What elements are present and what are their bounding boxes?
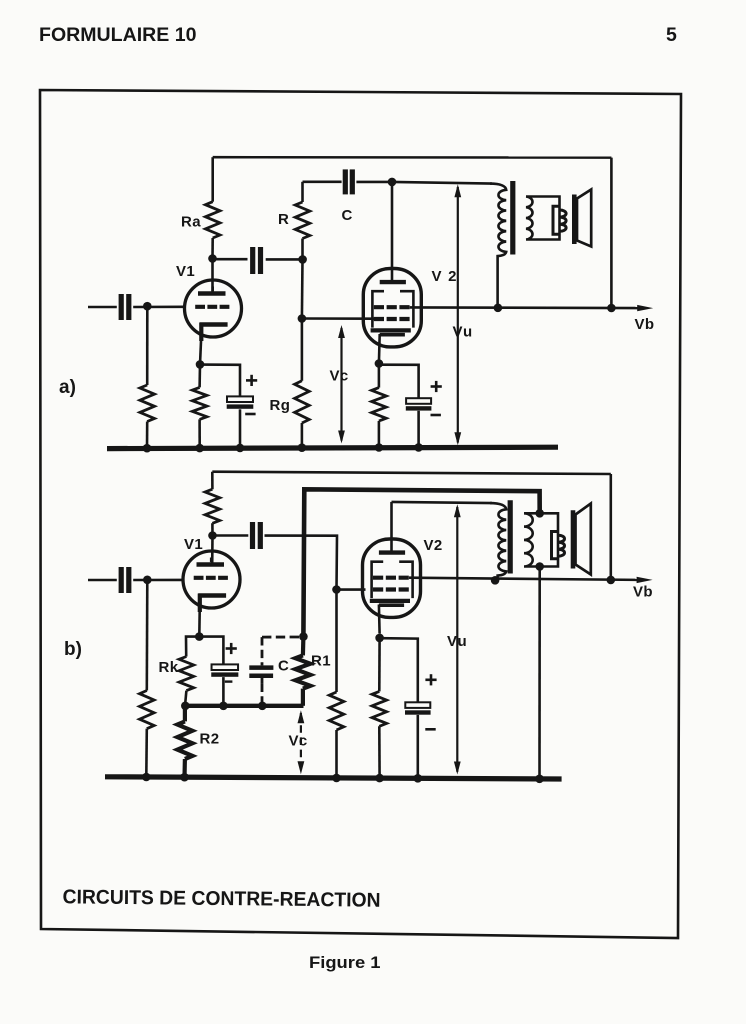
wire: V1 anode lead (a) xyxy=(211,259,214,294)
V2 control grid dashes xyxy=(373,587,409,591)
V2 screen grid dashes xyxy=(374,305,410,309)
wire: input stub (a) xyxy=(88,306,117,309)
V1 cathode xyxy=(198,593,226,598)
resistor: V1 grid leak (b) xyxy=(146,580,149,691)
speaker bar (b) xyxy=(571,510,576,568)
thick feedback wire from secondary (b) xyxy=(303,489,539,636)
svg-text:C: C xyxy=(342,207,353,224)
node: V2 cathode junction (a) xyxy=(375,359,384,368)
Vc dashed measure arrow (b) xyxy=(300,713,302,772)
outer frame xyxy=(40,90,681,938)
wire: screen to B+ rail with Vb arrow (b) xyxy=(409,578,638,580)
wire: input stub (b) xyxy=(88,579,117,582)
svg-text:CIRCUITS DE CONTRE-REACTION: CIRCUITS DE CONTRE-REACTION xyxy=(62,886,380,911)
svg-text:R2: R2 xyxy=(200,731,220,748)
V1 cathode xyxy=(200,322,228,327)
wire: supply drop to Vb node (a) xyxy=(610,158,613,308)
svg-text:Figure 1: Figure 1 xyxy=(309,954,381,972)
node: grid node on R-Rg chain (a) xyxy=(301,259,304,318)
wire: supply drop to Vb node (b) xyxy=(609,474,612,580)
svg-text:V2: V2 xyxy=(424,537,443,554)
V2 screen box xyxy=(372,291,413,327)
Vu measure arrow (b) xyxy=(456,507,458,772)
svg-text:Rk: Rk xyxy=(159,659,179,676)
svg-text:a): a) xyxy=(59,377,76,398)
svg-text:Vu: Vu xyxy=(447,633,468,650)
svg-text:Vb: Vb xyxy=(635,316,655,333)
resistor Rk xyxy=(186,637,199,657)
resistor R1 (bold) xyxy=(301,637,306,656)
V1 grid xyxy=(194,576,229,580)
wire: R top to C (a) xyxy=(303,181,342,184)
wire: V1 anode lead (b) xyxy=(211,536,214,565)
plus sign (b V2 cap) xyxy=(425,678,436,681)
resistor: V1 anode resistor (b) xyxy=(211,472,214,490)
wire: top supply rail (b) xyxy=(212,472,611,474)
wire: V1 cathode lead (b) xyxy=(198,594,202,613)
resistor R2 (bold) xyxy=(183,706,187,722)
thick cathode feedback node line (b) xyxy=(184,704,303,708)
ground bus (a) xyxy=(107,447,558,448)
wire: V2 cathode lead (b) xyxy=(378,605,381,634)
node: V2 grid node (b) xyxy=(332,585,341,594)
wire: V1 cathode lead (a) xyxy=(199,323,203,342)
svg-text:Vb: Vb xyxy=(633,584,653,601)
node: V2 anode node (a) xyxy=(388,178,397,187)
wire: screen grid to B+ rail with Vb arrow (a) xyxy=(410,306,638,309)
minus sign (a V2 cap) xyxy=(431,414,441,417)
wire: V1 anode to coupling cap (a) xyxy=(213,258,248,261)
speaker voice coil (a) xyxy=(553,206,566,234)
svg-text:5: 5 xyxy=(666,24,677,46)
node dots on node line (b) xyxy=(181,702,190,711)
capacitor: input coupling cap (a) xyxy=(119,294,124,320)
node: primary return on rail (b) xyxy=(491,576,500,585)
bus junction dots (a) xyxy=(143,444,152,453)
node: V1 anode junction (b) xyxy=(208,531,217,540)
node: R1 top node (b) xyxy=(299,632,308,641)
plus sign (a V1 cap) xyxy=(246,379,257,382)
transformer secondary + speaker coil (a) xyxy=(526,197,560,240)
transformer core (b) xyxy=(508,500,513,573)
resistor R xyxy=(301,239,304,260)
wire: to V2 bypass cap (b) xyxy=(380,638,418,702)
minus sign (a V1 cap) xyxy=(245,413,255,416)
minus sign (b V2 cap) xyxy=(425,728,435,731)
svg-text:b): b) xyxy=(64,639,82,660)
svg-text:C: C xyxy=(278,658,289,675)
node: secondary top feedback tap (b) xyxy=(535,509,544,518)
V2 control grid dashes xyxy=(374,317,410,321)
resistor: V2 cathode resistor (b) xyxy=(378,638,381,692)
capacitor: V1 cathode bypass (a) xyxy=(227,396,253,402)
wire: to V2 bypass cap (a) xyxy=(379,365,419,399)
wire: V2 cathode lead (a) xyxy=(378,334,381,364)
wire: coupling cap to R node (a) xyxy=(266,258,303,261)
wire: grid node to V2 grid (a) xyxy=(302,317,374,320)
tube V2 envelope xyxy=(363,269,421,347)
V2 cathode xyxy=(370,599,410,603)
wire: grid node to V2 grid (b) xyxy=(337,588,366,591)
V2 cathode xyxy=(371,328,411,332)
resistor: V2 grid leak (b) xyxy=(335,590,338,693)
wire: V2 top lead to primary line (b) xyxy=(390,502,393,553)
plus sign (b Rk cap) xyxy=(226,647,237,650)
capacitor: V2 cathode bypass (b) xyxy=(405,702,430,708)
node: V1 cathode junction (a) xyxy=(196,360,205,369)
wire: V2 anode to primary top (a) xyxy=(392,182,492,184)
node: secondary bottom ground tap (b) xyxy=(535,562,544,571)
V1 anode xyxy=(197,562,225,567)
V2 screen box xyxy=(372,562,413,598)
node: V1 anode junction (a) xyxy=(208,254,217,263)
wire: secondary bottom to ground (b) xyxy=(538,567,541,779)
V1 cathode node (b) xyxy=(195,632,204,641)
Vc measure arrow (a) xyxy=(340,328,342,441)
minus tick (b Rk cap) xyxy=(225,680,233,682)
capacitor: Rk bypass electrolytic (b) xyxy=(212,664,239,670)
wire: top supply rail (a) xyxy=(213,156,612,159)
node: Vb junction (a) xyxy=(607,304,616,313)
wire: C to V2 anode node (a) xyxy=(356,181,392,184)
svg-text:V1: V1 xyxy=(184,536,203,553)
bus junction dots (b) xyxy=(142,773,151,782)
svg-text:FORMULAIRE 10: FORMULAIRE 10 xyxy=(39,24,197,46)
node: primary return on rail (a) xyxy=(494,304,503,313)
speaker cone (b) xyxy=(576,504,591,575)
capacitor: input coupling cap (b) xyxy=(119,567,124,593)
speaker cone (a) xyxy=(577,190,591,247)
svg-text:R1: R1 xyxy=(311,653,331,670)
transformer secondary (b) xyxy=(524,513,558,566)
dashed capacitor C (b) xyxy=(262,636,300,639)
wire: V1 anode to coupling cap (b) xyxy=(213,534,249,537)
wire: anode line to primary top (b) xyxy=(392,502,493,503)
svg-text:Vc: Vc xyxy=(330,368,349,385)
capacitor C (a feedback) xyxy=(343,169,348,194)
resistor: V1 cathode resistor (a) xyxy=(198,364,201,387)
tube V1 envelope xyxy=(183,551,240,608)
resistor: V1 grid leak (a) xyxy=(146,306,149,385)
capacitor: interstage coupling (a) xyxy=(250,247,255,274)
tube V1 envelope xyxy=(185,280,242,337)
V2 anode xyxy=(380,280,406,284)
Vu measure arrow (a) xyxy=(457,187,459,443)
node: input junction (b) xyxy=(143,576,152,585)
svg-text:V 2: V 2 xyxy=(432,268,458,285)
wire: coupling cap to corner then V2 grid node (b) xyxy=(265,536,338,590)
capacitor: V2 cathode bypass (a) xyxy=(406,398,431,404)
plus sign (a V2 cap) xyxy=(431,385,442,388)
wire: V2 top lead (a) xyxy=(391,182,394,282)
node: Vb junction (b) xyxy=(607,576,616,585)
transformer primary winding (b) xyxy=(490,503,506,580)
ground bus (b) xyxy=(105,777,562,779)
svg-text:Rg: Rg xyxy=(270,397,291,414)
svg-text:R: R xyxy=(278,211,289,228)
speaker bar (a) xyxy=(572,195,577,245)
wire: to V1 bypass cap (a) xyxy=(200,365,240,397)
tube V2 envelope xyxy=(363,539,421,617)
svg-text:Ra: Ra xyxy=(181,214,201,231)
resistor Ra xyxy=(211,157,214,202)
resistor Rg xyxy=(301,319,304,381)
node: input junction (a) xyxy=(143,302,152,311)
transformer core (a) xyxy=(510,181,515,255)
node: V2 cathode junction (b) xyxy=(375,634,384,643)
transformer primary winding (a) xyxy=(490,184,506,312)
V1 grid xyxy=(195,305,230,309)
svg-text:Vc: Vc xyxy=(289,733,308,750)
V2 screen grid dashes xyxy=(373,576,409,580)
wire: input to V1 grid (b) xyxy=(133,579,183,582)
V1 anode xyxy=(198,291,226,296)
capacitor: interstage coupling (b) xyxy=(250,522,255,549)
V2 anode xyxy=(379,550,405,554)
speaker voice coil (b) xyxy=(552,532,565,559)
node: R bottom junction (a) xyxy=(298,255,307,264)
wire: input to V1 grid (a) xyxy=(133,305,185,308)
wire: to Rk bypass cap (b) xyxy=(199,637,223,665)
resistor: V2 cathode resistor (a) xyxy=(378,364,381,388)
svg-text:Vu: Vu xyxy=(453,324,474,341)
svg-text:V1: V1 xyxy=(176,263,195,280)
